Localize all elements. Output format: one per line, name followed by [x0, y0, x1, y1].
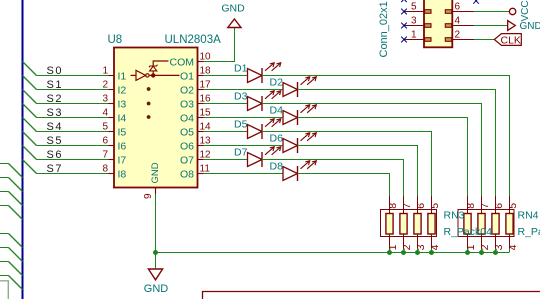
svg-text:4: 4 [455, 16, 461, 27]
wire [481, 249, 483, 253]
wire [0, 261, 9, 263]
RN4 pin 2 [479, 244, 491, 250]
diode to COM inside U8 [149, 61, 169, 71]
svg-text:6: 6 [455, 2, 461, 13]
svg-text:2: 2 [479, 244, 491, 250]
svg-text:S2: S2 [47, 93, 63, 105]
bus entry S3 [23, 104, 37, 118]
svg-text:D7: D7 [234, 146, 248, 158]
wire [204, 117, 284, 119]
RN3 pin 7 [401, 203, 413, 209]
wire [204, 159, 248, 161]
wire pin4 to GND [474, 25, 508, 27]
svg-text:8: 8 [387, 203, 399, 209]
wire GND horizontal [156, 252, 510, 254]
wire [262, 160, 404, 214]
no-connect X [401, 0, 407, 2]
wire S3 [37, 117, 111, 119]
junction [401, 250, 406, 255]
svg-text:O6: O6 [180, 140, 194, 152]
wire [389, 249, 391, 253]
junction [429, 250, 434, 255]
svg-text:O3: O3 [180, 98, 194, 110]
svg-text:6: 6 [102, 136, 108, 147]
svg-text:S5: S5 [47, 135, 63, 147]
U8 pin 7 (I7) [102, 150, 126, 167]
U8 pin 2 (I2) [102, 80, 126, 97]
svg-text:7: 7 [479, 203, 491, 209]
wire [298, 146, 418, 214]
wire [0, 177, 9, 179]
svg-text:5: 5 [102, 122, 108, 133]
no-connect X [401, 9, 407, 15]
resistor RN3.3 [414, 196, 421, 249]
node S0 [47, 65, 63, 77]
svg-text:5: 5 [411, 2, 417, 13]
svg-text:2: 2 [102, 80, 108, 91]
U8 pin 14 (O5) [180, 122, 211, 139]
ground (bottom) [144, 269, 169, 295]
wire [298, 174, 390, 214]
svg-text:S6: S6 [47, 149, 63, 161]
svg-text:S4: S4 [47, 121, 63, 133]
wire [0, 191, 9, 193]
svg-text:1: 1 [387, 244, 399, 250]
svg-text:4: 4 [429, 244, 441, 250]
svg-text:RN4: RN4 [518, 210, 539, 222]
wire pin6 to VCC [474, 11, 509, 13]
bus entry S0 [23, 62, 37, 76]
wire S0 [37, 75, 111, 77]
wire [204, 75, 248, 77]
svg-text:D8: D8 [270, 160, 284, 172]
RN4 pin 7 [479, 203, 491, 209]
wire S4 [37, 131, 111, 133]
svg-text:2: 2 [401, 244, 413, 250]
svg-text:GND: GND [221, 3, 245, 15]
wire S1 [37, 89, 111, 91]
junction [415, 250, 420, 255]
U8 pin 12 (O7) [180, 150, 211, 167]
svg-text:R_Pack04: R_Pack04 [444, 226, 493, 238]
svg-text:1: 1 [102, 66, 108, 77]
svg-text:7: 7 [401, 203, 413, 209]
value ULN2803A [165, 34, 222, 46]
connector pin 5 [404, 2, 431, 14]
bus entry S5 [23, 132, 37, 146]
wire [0, 275, 9, 277]
no-connect X [401, 23, 407, 29]
svg-text:D5: D5 [234, 118, 248, 130]
wire [204, 173, 284, 175]
bus entry S7 [23, 160, 37, 174]
bus entry [9, 234, 23, 248]
wire S5 [37, 145, 111, 147]
wire [0, 163, 9, 165]
no-connect X pin 8 [473, 0, 479, 4]
svg-text:O8: O8 [180, 168, 194, 180]
junction [387, 250, 392, 255]
node S2 [47, 93, 63, 105]
junction [493, 250, 498, 255]
resistor RN3.2 [400, 196, 407, 249]
wire S7 [37, 173, 111, 175]
LED D2 [270, 76, 317, 97]
wire [495, 249, 497, 253]
svg-text:VCC: VCC [520, 0, 531, 21]
svg-text:3: 3 [102, 94, 108, 105]
svg-text:I6: I6 [118, 140, 127, 152]
svg-text:2: 2 [455, 30, 461, 41]
node: darlington dot [147, 115, 151, 119]
U8 pin 8 (I8) [102, 164, 126, 181]
wire: sheet frame corner [203, 292, 540, 299]
U8 pin 15 (O4) [180, 108, 211, 125]
wire COM to GND [204, 28, 235, 62]
bus entry S4 [23, 118, 37, 132]
ground (top, inverted) [221, 3, 245, 28]
resistor RN4.3 [492, 196, 499, 249]
U8 pin 17 (O2) [180, 80, 211, 97]
U8 pin 6 (I6) [102, 136, 126, 153]
global label CLK [494, 34, 521, 47]
svg-text:RN3: RN3 [444, 210, 465, 222]
RN3 pin 4 [429, 244, 441, 250]
wire [509, 249, 511, 253]
value Conn_02x1 [378, 1, 390, 57]
U8 pin 18 (O1) [180, 66, 211, 83]
bus entry [9, 192, 23, 206]
svg-text:D6: D6 [270, 132, 284, 144]
svg-text:GND: GND [144, 283, 169, 295]
LED D5 [234, 118, 281, 139]
svg-text:8: 8 [102, 164, 108, 175]
svg-text:9: 9 [143, 193, 154, 199]
svg-text:3: 3 [493, 244, 505, 250]
bus [22, 0, 24, 299]
svg-text:S7: S7 [47, 163, 63, 175]
svg-text:I2: I2 [118, 84, 127, 96]
RN4 pin 3 [493, 244, 505, 250]
wire S2 [37, 103, 111, 105]
LED D4 [270, 104, 317, 125]
U8 pin 10 (COM) [170, 52, 212, 69]
svg-text:5: 5 [429, 203, 441, 209]
U8 pin 3 (I3) [102, 94, 126, 111]
svg-text:1: 1 [465, 244, 477, 250]
RN4 pin 6 [493, 203, 505, 209]
wire [262, 132, 432, 214]
svg-text:COM: COM [170, 56, 195, 68]
U8 pin 1 (I1) [102, 66, 126, 83]
wire [298, 118, 468, 214]
transistor buffer inside U8 [131, 70, 180, 80]
wire [0, 281, 8, 299]
connector pin 1 [404, 30, 431, 42]
svg-text:10: 10 [200, 52, 212, 63]
node S7 [47, 163, 63, 175]
RN3 pin 5 [429, 203, 441, 209]
LED D3 [234, 90, 281, 111]
RN4 pin 8 [465, 203, 477, 209]
resistor RN3.1 [386, 196, 393, 249]
junction [479, 250, 484, 255]
LED D6 [270, 132, 317, 153]
RN3 pin 2 [401, 244, 413, 250]
svg-text:D1: D1 [234, 62, 248, 74]
node: darlington dot [147, 87, 151, 91]
svg-text:O1: O1 [180, 70, 194, 82]
svg-text:3: 3 [411, 16, 417, 27]
wire [467, 249, 469, 253]
connector pin 6 [445, 2, 474, 14]
node S3 [47, 107, 63, 119]
wire [0, 205, 9, 207]
bus entry [9, 206, 23, 220]
svg-text:O5: O5 [180, 126, 194, 138]
resistor pack RN3 outline [381, 210, 437, 237]
svg-text:6: 6 [415, 203, 427, 209]
node S1 [47, 79, 63, 91]
resistor RN4.2 [478, 196, 485, 249]
node S5 [47, 135, 63, 147]
wire [204, 145, 284, 147]
svg-text:1: 1 [411, 30, 417, 41]
resistor RN4.1 [464, 196, 471, 249]
wire [262, 76, 510, 214]
svg-text:3: 3 [415, 244, 427, 250]
svg-text:4: 4 [507, 244, 519, 250]
resistor RN3.4 [428, 196, 435, 249]
power GND (arrow) [508, 21, 540, 33]
wire [403, 249, 405, 253]
svg-text:S1: S1 [47, 79, 63, 91]
svg-text:Conn_02x1: Conn_02x1 [378, 1, 390, 57]
wire [204, 103, 248, 105]
wire pin2 to CLK [474, 39, 494, 41]
RN4 pin 1 [465, 244, 477, 250]
svg-text:D2: D2 [270, 76, 284, 88]
svg-text:I1: I1 [118, 70, 127, 82]
resistor RN4.4 [506, 196, 513, 249]
value R_Pack04 of RN3 [444, 226, 493, 238]
svg-text:ULN2803A: ULN2803A [165, 34, 222, 46]
svg-text:R_Pack04: R_Pack04 [518, 226, 540, 238]
svg-text:I4: I4 [118, 112, 127, 124]
svg-text:S3: S3 [47, 107, 63, 119]
LED D1 [234, 62, 281, 83]
bus entry S2 [23, 90, 37, 104]
RN3 pin 1 [387, 244, 399, 250]
svg-text:7: 7 [102, 150, 108, 161]
svg-text:I5: I5 [118, 126, 127, 138]
RN3 pin 3 [415, 244, 427, 250]
svg-text:D4: D4 [270, 104, 284, 116]
bus entry [9, 276, 23, 290]
U8 pin 13 (O6) [180, 136, 211, 153]
svg-text:CLK: CLK [501, 34, 521, 46]
wire GND pin9 down [155, 194, 157, 269]
U8 pin 5 (I5) [102, 122, 126, 139]
U8 pin 9 (GND) [143, 162, 161, 199]
RN3 pin 6 [415, 203, 427, 209]
wire [0, 233, 9, 235]
label RN4 [518, 210, 539, 222]
wire: dot to diode [152, 71, 154, 76]
IC U8 ULN2803A body [114, 48, 198, 188]
bus entry [9, 164, 23, 178]
svg-text:4: 4 [102, 108, 108, 119]
wire [417, 249, 419, 253]
wire [262, 104, 482, 214]
svg-text:O4: O4 [180, 112, 194, 124]
wire [0, 247, 9, 249]
svg-text:S0: S0 [47, 65, 63, 77]
wire [204, 89, 284, 91]
RN4 pin 5 [507, 203, 519, 209]
U8 pin 11 (O8) [180, 164, 210, 181]
label RN3 [444, 210, 465, 222]
svg-text:I8: I8 [118, 168, 127, 180]
svg-text:8: 8 [465, 203, 477, 209]
U8 pin 4 (I4) [102, 108, 126, 125]
svg-text:6: 6 [493, 203, 505, 209]
junction [153, 250, 158, 255]
junction [465, 250, 470, 255]
svg-text:GND: GND [520, 21, 540, 32]
wire S6 [37, 159, 111, 161]
LED D7 [234, 146, 281, 167]
power VCC [509, 0, 530, 21]
bus entry [9, 178, 23, 192]
node S4 [47, 121, 63, 133]
RN3 pin 8 [387, 203, 399, 209]
bus entry [9, 262, 23, 276]
bus entry S6 [23, 146, 37, 160]
svg-text:GND: GND [150, 162, 161, 183]
svg-text:5: 5 [507, 203, 519, 209]
wire [298, 90, 496, 214]
value R_Pack04 of RN4 [518, 226, 540, 238]
connector pin 4 [445, 16, 474, 28]
label U8 [108, 34, 123, 46]
node S6 [47, 149, 63, 161]
connector pin 3 [404, 16, 431, 28]
svg-text:O7: O7 [180, 154, 194, 166]
wire [204, 131, 248, 133]
svg-text:D3: D3 [234, 90, 248, 102]
connector J? body [424, 0, 452, 47]
no-connect X [401, 37, 407, 43]
svg-text:I3: I3 [118, 98, 127, 110]
resistor pack RN4 outline [458, 210, 514, 237]
svg-text:I7: I7 [118, 154, 127, 166]
wire [431, 249, 433, 253]
bus entry S1 [23, 76, 37, 90]
U8 pin 16 (O3) [180, 94, 211, 111]
connector pin 2 [445, 30, 474, 42]
node: darlington dot [147, 102, 151, 106]
RN4 pin 4 [507, 244, 519, 250]
LED D8 [270, 160, 317, 181]
svg-text:U8: U8 [108, 34, 123, 46]
bus entry [9, 248, 23, 262]
svg-text:O2: O2 [180, 84, 194, 96]
node: COM diode junction [151, 73, 155, 77]
